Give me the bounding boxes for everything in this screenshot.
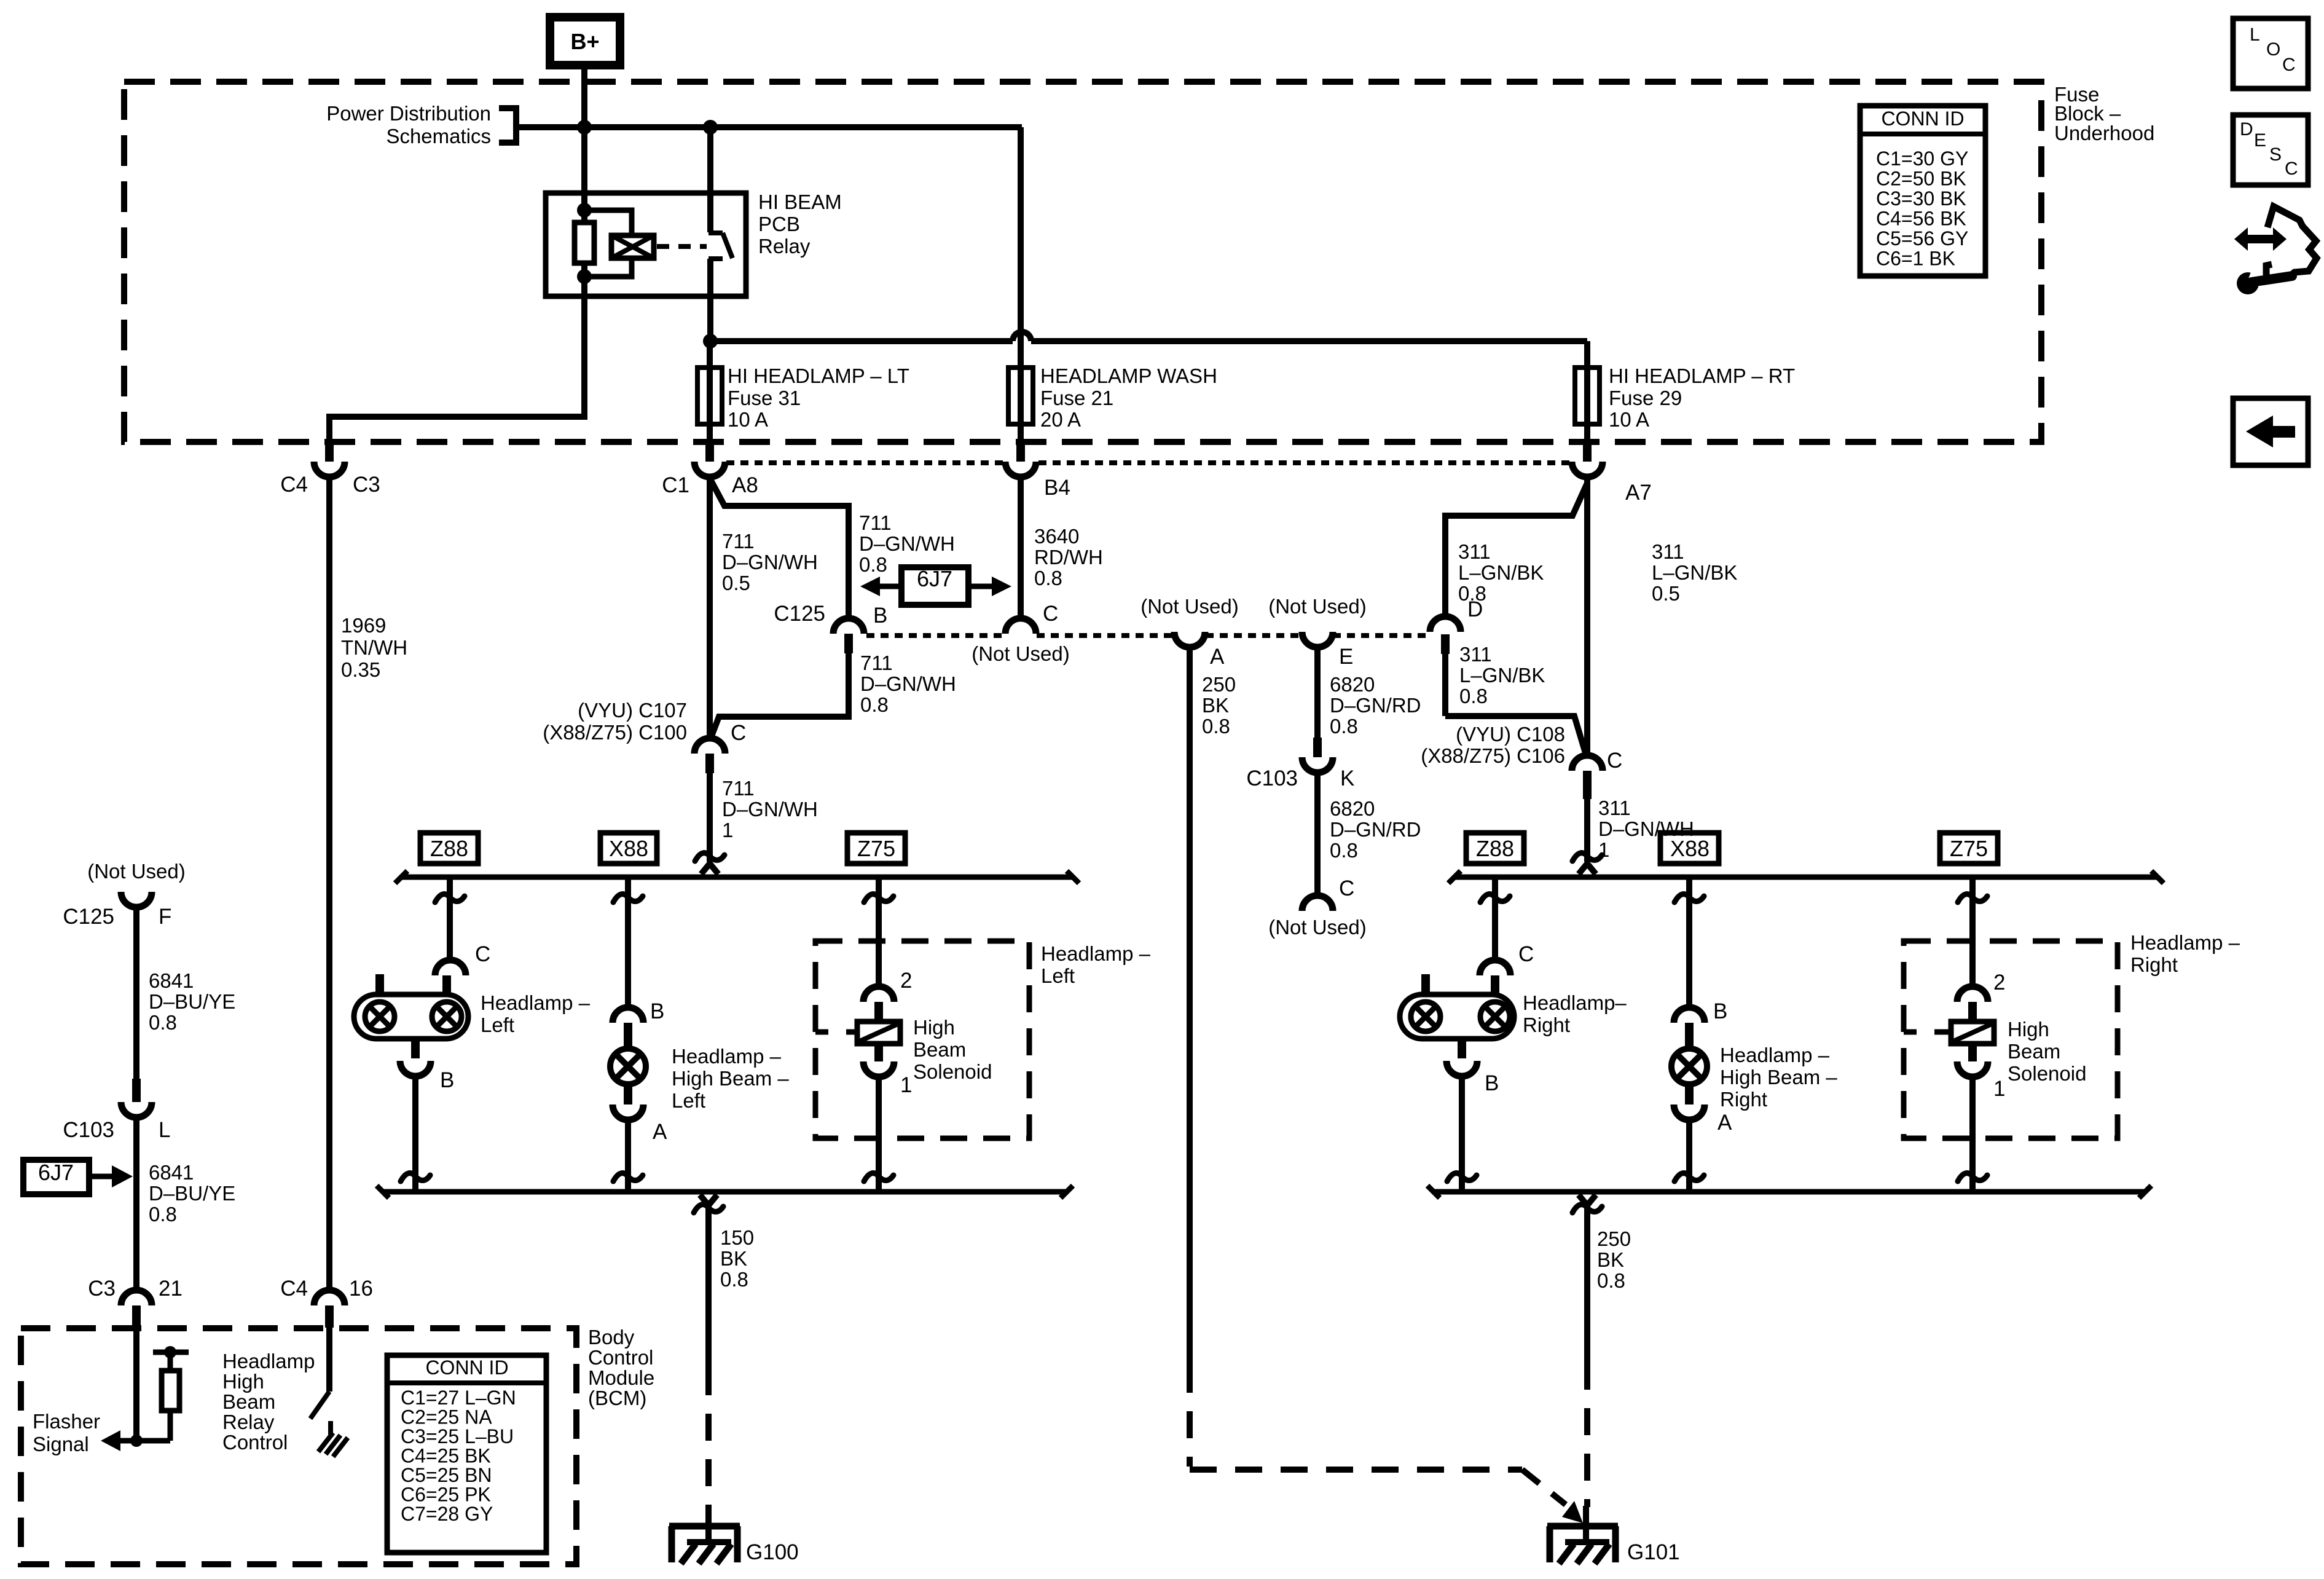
svg-text:Headlamp –: Headlamp – [2130,931,2240,954]
svg-text:L–GN/BK: L–GN/BK [1458,561,1544,584]
svg-text:Headlamp –: Headlamp – [672,1045,782,1068]
svg-text:C5=56 GY: C5=56 GY [1876,227,1968,250]
svg-text:(Not Used): (Not Used) [1268,916,1367,939]
svg-text:L: L [2250,25,2260,45]
svg-text:10 A: 10 A [728,408,768,431]
svg-text:Z75: Z75 [857,836,895,861]
svg-text:D: D [2240,119,2253,140]
svg-text:0.8: 0.8 [1459,685,1488,707]
svg-text:E: E [2254,130,2266,151]
svg-text:S: S [2269,144,2282,165]
svg-text:Right: Right [1523,1014,1570,1036]
svg-text:HI HEADLAMP – RT: HI HEADLAMP – RT [1609,364,1795,387]
svg-text:Relay: Relay [758,235,811,258]
svg-text:Fuse 21: Fuse 21 [1040,387,1113,409]
svg-text:Control: Control [222,1431,288,1454]
svg-text:311: 311 [1652,540,1684,563]
svg-text:C103: C103 [1246,766,1298,790]
svg-text:TN/WH: TN/WH [341,636,407,659]
svg-text:Headlamp –: Headlamp – [481,991,591,1014]
svg-text:Schematics: Schematics [386,125,491,148]
svg-text:L–GN/BK: L–GN/BK [1459,664,1545,687]
svg-text:6820: 6820 [1330,797,1375,820]
svg-text:6J7: 6J7 [917,566,952,591]
svg-text:HI BEAM: HI BEAM [758,191,842,213]
svg-text:B+: B+ [570,29,599,54]
svg-text:C125: C125 [63,905,114,929]
svg-text:0.5: 0.5 [1652,582,1680,605]
svg-text:C125: C125 [774,602,825,626]
svg-text:B: B [440,1068,454,1092]
svg-text:C: C [2282,55,2296,75]
svg-text:C: C [1339,876,1354,900]
svg-text:711: 711 [722,530,755,553]
svg-text:0.5: 0.5 [722,572,750,594]
svg-text:Fuse 29: Fuse 29 [1609,387,1682,409]
svg-text:Module: Module [588,1366,654,1389]
svg-text:1: 1 [1993,1077,2005,1101]
svg-text:D–GN/RD: D–GN/RD [1330,694,1421,717]
svg-text:711: 711 [859,511,892,534]
svg-text:311: 311 [1459,643,1492,666]
svg-text:16: 16 [349,1277,373,1301]
svg-text:(Not Used): (Not Used) [972,642,1070,665]
svg-text:0.8: 0.8 [720,1268,748,1291]
svg-text:(VYU) C108: (VYU) C108 [1456,723,1565,746]
svg-text:PCB: PCB [758,213,800,235]
svg-text:CONN ID: CONN ID [425,1357,508,1379]
svg-text:0.8: 0.8 [1597,1269,1625,1292]
svg-text:250: 250 [1597,1227,1631,1250]
svg-text:0.35: 0.35 [341,658,380,681]
svg-text:711: 711 [722,777,755,800]
svg-text:311: 311 [1458,540,1491,563]
svg-text:2: 2 [1993,971,2005,994]
svg-text:A: A [1717,1111,1732,1135]
svg-text:Headlamp: Headlamp [222,1350,315,1372]
svg-text:G100: G100 [746,1540,799,1564]
svg-text:(BCM): (BCM) [588,1387,646,1409]
svg-text:Right: Right [2130,953,2178,976]
svg-text:C3: C3 [353,473,380,497]
svg-text:Z88: Z88 [1476,836,1514,861]
svg-text:Power Distribution: Power Distribution [326,102,491,125]
svg-text:C103: C103 [63,1118,114,1142]
svg-text:Left: Left [672,1089,705,1112]
svg-text:(Not Used): (Not Used) [1140,595,1239,618]
svg-text:Control: Control [588,1346,653,1369]
svg-text:C: C [1607,749,1622,773]
svg-text:6820: 6820 [1330,673,1375,696]
svg-text:Headlamp –: Headlamp – [1720,1044,1830,1066]
svg-text:C3: C3 [88,1277,116,1301]
svg-text:G101: G101 [1627,1540,1680,1564]
svg-text:Z75: Z75 [1950,836,1988,861]
svg-text:C2=50 BK: C2=50 BK [1876,168,1966,190]
svg-text:Beam: Beam [913,1038,966,1061]
svg-text:Body: Body [588,1326,635,1349]
svg-text:Headlamp –: Headlamp – [1041,942,1151,965]
svg-text:0.8: 0.8 [1330,715,1358,738]
svg-text:BK: BK [720,1247,747,1270]
svg-text:1: 1 [900,1073,912,1097]
svg-text:311: 311 [1598,797,1631,819]
svg-text:C3=30 BK: C3=30 BK [1876,187,1966,210]
svg-text:0.8: 0.8 [149,1203,177,1226]
svg-text:C4: C4 [280,1277,308,1301]
svg-text:Beam: Beam [222,1390,275,1413]
svg-text:O: O [2266,39,2280,60]
svg-text:Z88: Z88 [430,836,468,861]
svg-text:BK: BK [1202,694,1229,717]
svg-text:20 A: 20 A [1040,408,1081,431]
svg-text:6841: 6841 [149,969,194,992]
svg-text:D–GN/WH: D–GN/WH [859,532,955,555]
svg-text:B: B [650,999,664,1023]
svg-text:F: F [159,905,171,929]
svg-text:L: L [159,1118,170,1142]
svg-text:1969: 1969 [341,614,386,637]
svg-text:(X88/Z75) C106: (X88/Z75) C106 [1421,744,1565,767]
svg-text:Flasher: Flasher [33,1410,100,1433]
svg-text:D–GN/RD: D–GN/RD [1330,818,1421,841]
svg-text:RD/WH: RD/WH [1034,546,1103,569]
svg-text:BK: BK [1597,1248,1624,1271]
svg-text:High Beam –: High Beam – [1720,1066,1837,1089]
svg-text:Solenoid: Solenoid [2008,1062,2086,1085]
svg-text:C1=30 GY: C1=30 GY [1876,148,1968,170]
svg-text:High: High [222,1370,264,1393]
svg-text:X88: X88 [609,836,648,861]
svg-text:21: 21 [159,1277,183,1301]
svg-text:CONN ID: CONN ID [1881,108,1964,130]
svg-text:A: A [1210,645,1225,669]
svg-text:C: C [731,721,746,745]
svg-text:0.8: 0.8 [1202,715,1230,738]
svg-text:B: B [1713,999,1727,1023]
svg-text:Solenoid: Solenoid [913,1060,992,1083]
svg-text:(Not Used): (Not Used) [1268,595,1367,618]
svg-text:2: 2 [900,969,912,993]
svg-text:C: C [1518,942,1534,966]
svg-text:D–GN/WH: D–GN/WH [722,798,818,821]
svg-text:Signal: Signal [33,1433,89,1455]
svg-text:C: C [2285,159,2298,179]
svg-text:L–GN/BK: L–GN/BK [1652,561,1737,584]
svg-text:(VYU) C107: (VYU) C107 [578,699,687,722]
svg-text:Fuse 31: Fuse 31 [728,387,801,409]
svg-text:High: High [2008,1018,2049,1041]
svg-text:B: B [873,604,887,628]
svg-text:0.8: 0.8 [859,553,887,576]
svg-text:(Not Used): (Not Used) [87,860,186,883]
svg-text:B: B [1485,1071,1499,1095]
svg-text:0.8: 0.8 [1034,567,1062,589]
svg-text:10 A: 10 A [1609,408,1649,431]
svg-text:0.8: 0.8 [860,693,889,716]
svg-text:Relay: Relay [222,1411,275,1433]
svg-text:High: High [913,1016,955,1039]
svg-text:0.8: 0.8 [149,1011,177,1034]
svg-text:6841: 6841 [149,1161,194,1184]
svg-text:D: D [1467,597,1483,621]
svg-text:Left: Left [1041,964,1075,987]
svg-text:A: A [653,1120,667,1144]
svg-text:711: 711 [860,652,893,674]
svg-text:E: E [1339,645,1353,669]
svg-text:Headlamp–: Headlamp– [1523,991,1627,1014]
svg-text:A7: A7 [1625,481,1652,505]
svg-text:0.8: 0.8 [1330,839,1358,862]
svg-text:C1: C1 [662,473,689,497]
svg-text:(X88/Z75) C100: (X88/Z75) C100 [543,721,687,744]
svg-text:D–GN/WH: D–GN/WH [722,551,818,573]
svg-text:C: C [475,942,490,966]
svg-text:HI HEADLAMP – LT: HI HEADLAMP – LT [728,364,909,387]
svg-text:A8: A8 [732,473,758,497]
svg-text:150: 150 [720,1226,754,1249]
svg-text:1: 1 [722,819,733,841]
svg-text:D–GN/WH: D–GN/WH [860,672,956,695]
svg-text:250: 250 [1202,673,1236,696]
svg-text:C4: C4 [280,473,308,497]
svg-text:HEADLAMP WASH: HEADLAMP WASH [1040,364,1217,387]
svg-text:B4: B4 [1044,476,1070,500]
svg-text:X88: X88 [1670,836,1710,861]
svg-text:High Beam –: High Beam – [672,1067,789,1090]
svg-text:Underhood: Underhood [2054,122,2154,144]
svg-text:C4=56 BK: C4=56 BK [1876,208,1966,230]
svg-text:C: C [1043,602,1058,626]
svg-text:6J7: 6J7 [38,1160,74,1185]
svg-text:3640: 3640 [1034,525,1079,548]
svg-text:Right: Right [1720,1088,1767,1111]
svg-text:1: 1 [1598,838,1609,861]
svg-text:C6=1 BK: C6=1 BK [1876,248,1955,270]
svg-text:C7=28 GY: C7=28 GY [401,1503,493,1525]
svg-text:Left: Left [481,1014,514,1036]
svg-text:K: K [1340,766,1354,790]
svg-text:Beam: Beam [2008,1040,2060,1063]
svg-text:D–BU/YE: D–BU/YE [149,1182,235,1205]
svg-text:D–BU/YE: D–BU/YE [149,990,235,1013]
